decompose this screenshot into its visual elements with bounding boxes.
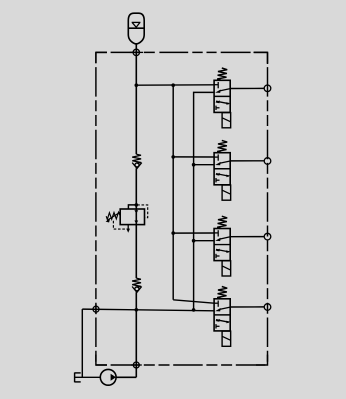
port A4 circle on right edge: [264, 304, 271, 311]
tank T1: [75, 373, 81, 383]
port P6 circle-cross on bottom edge: [131, 362, 142, 368]
valve SV1 (3/2 solenoid, spring return): [214, 68, 264, 128]
SV1 flow path (top square): [220, 89, 231, 91]
dashed enclosure top edge: [96, 51, 268, 53]
relief valve adjust arrow: [108, 212, 120, 220]
relief valve spring: [106, 212, 120, 219]
port P5 circle-cross on left edge: [93, 304, 99, 314]
relief valve drain arrow below: [127, 225, 129, 229]
SV1 blocked port T (bottom square): [215, 106, 217, 110]
wire: supply line down to pump elbow: [135, 292, 137, 377]
wire: return bus to SV4 port: [82, 309, 214, 311]
enclosure corner stubs: [96, 52, 268, 365]
wire: left riser to pump suction: [81, 309, 83, 377]
wire: supply tap to valve SV1 inlet: [136, 84, 214, 86]
valve SV2: [214, 140, 264, 200]
junction: supply tap: [135, 83, 139, 87]
wire: bus A to SV2: [173, 156, 214, 158]
accumulator ACC: [128, 13, 144, 44]
wire: bus A to SV4: [173, 300, 214, 303]
junction: bus A / SV3: [171, 231, 175, 235]
wire: bus B to SV3: [194, 240, 215, 242]
relief valve pilot dashed line (left): [113, 221, 128, 229]
SV1 body: [214, 80, 230, 112]
wire: suction pipe: [75, 376, 100, 378]
wire: bus A vertical: [172, 85, 174, 300]
dashed enclosure right edge: [267, 52, 269, 365]
port P0 circle-cross on top edge: [130, 49, 143, 55]
dashed enclosure left edge: [95, 52, 97, 365]
port A2 circle on right edge: [264, 158, 271, 165]
junction: bus B / SV3: [192, 239, 196, 243]
SV1 flow path (bottom square): [216, 101, 229, 104]
junction: bus A top: [171, 83, 175, 87]
port A3 circle on right edge: [264, 233, 271, 240]
relief valve pilot dashed line (right): [137, 205, 148, 218]
junction: bus A / SV2: [171, 155, 175, 159]
pump M1: [100, 369, 116, 385]
SV1 spring: [217, 68, 227, 80]
wire: supply line CV1 to CV2: [135, 168, 137, 278]
relief valve RV1: [106, 203, 148, 233]
junction: return bus / supply line: [135, 308, 139, 312]
wire: bus B to SV2: [194, 164, 215, 166]
port A1 circle on right edge: [264, 85, 271, 92]
wire: bus A to SV3: [173, 232, 214, 234]
SV1 blocked port T (top square): [214, 84, 218, 86]
relief valve body: [120, 209, 144, 225]
wire: pump outlet: [116, 376, 136, 378]
valve SV3: [214, 216, 264, 276]
junction on supply line: [135, 203, 139, 207]
wire: SV1 output: [230, 87, 264, 89]
check valve CV2 (spring + ball + seat): [132, 278, 142, 292]
wire: SV1 port to bus B: [194, 92, 215, 310]
junction: bus B / return bus: [192, 308, 196, 312]
junction: bus B / SV2: [192, 163, 196, 167]
dashed enclosure bottom edge: [96, 364, 268, 366]
SV1 solenoid: [222, 113, 231, 128]
relief valve inlet step: [128, 205, 136, 209]
flow arrows inside relief valve: [134, 210, 138, 214]
valve SV4: [214, 287, 264, 347]
wire: accumulator to supply line: [135, 44, 137, 155]
check valve CV1 (spring + ball + seat): [132, 154, 142, 168]
